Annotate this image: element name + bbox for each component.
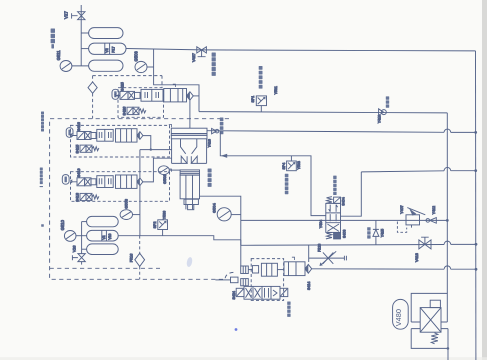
oval tag V480: [393, 299, 409, 329]
junction dot L7/right bus: [475, 268, 478, 271]
label 压力传感器 (vertical): [259, 66, 263, 89]
wire stub B3: [82, 248, 87, 250]
valve element V480: [420, 300, 441, 332]
junction dot L5/right bus: [474, 169, 477, 172]
junction dot L3/right bus: [474, 131, 477, 134]
dashed riser through filter: [93, 76, 162, 119]
scan edge shading bottom: [0, 357, 487, 360]
pressure sensor SP4/Y533: [287, 156, 297, 171]
svg-text:V480: V480: [394, 309, 403, 326]
corner mark row1: [173, 84, 176, 87]
spring bottom: [326, 233, 332, 239]
pilot valve S426 below: [127, 107, 146, 114]
wire stub B1: [82, 221, 87, 223]
valve body S403: [326, 203, 341, 232]
junction dot V480 bottom: [447, 347, 450, 350]
proportional section row3: [97, 176, 113, 188]
wire: main pressure bus from accumulator to right column: [126, 49, 476, 51]
piston rod: [186, 175, 193, 209]
accumulator capsule B1: [87, 216, 119, 226]
pressure sensor SP1/Y531: [256, 96, 266, 112]
solenoid tab left: [236, 288, 244, 296]
wire stub G506: [147, 66, 154, 68]
hop over right vertical: [444, 241, 451, 244]
wire: L7 injection line to right bus: [312, 268, 476, 270]
wire: upper port line into cylinder: [140, 149, 172, 151]
wire: row2 cone to riser A then cylinder: [143, 136, 151, 150]
svg-text:V26: V26: [73, 246, 77, 253]
pilot valve S419: [71, 178, 96, 186]
connector B: [231, 277, 239, 283]
label 单向阀 (vertical): [367, 227, 370, 238]
wire: valve A-port riser to L5: [341, 172, 362, 216]
check valve Y415: [373, 229, 379, 236]
mid body S414: [261, 263, 277, 276]
wire stub G504: [231, 214, 241, 216]
svg-text:S403: S403: [342, 230, 346, 238]
oval tag Y504: [62, 175, 69, 185]
cylinder cap: [171, 128, 207, 135]
proportional section row2: [97, 129, 113, 141]
main cartridge row2: [116, 129, 138, 142]
svg-text:S404: S404: [342, 197, 346, 205]
adjustment arrow: [407, 208, 425, 216]
main cartridge row3: [116, 175, 138, 188]
piston seal glands: [181, 156, 197, 163]
pressure gauge G506: [135, 61, 147, 72]
svg-text:Y412: Y412: [432, 206, 436, 214]
main cartridge S414: [284, 262, 305, 276]
accumulator capsule B3: [87, 244, 119, 255]
dashed drain through F516: [139, 236, 141, 280]
svg-text:Y533: Y533: [297, 161, 301, 169]
wire: group2 riser: [81, 222, 83, 254]
svg-text:Y415: Y415: [380, 229, 384, 237]
cartridge cone S414: [305, 264, 312, 273]
pilot valve S418 below: [80, 193, 99, 200]
label 液控单向阀 (vertical): [220, 118, 224, 135]
svg-text:V10: V10: [108, 233, 112, 239]
wire stub G503: [169, 169, 180, 171]
valve V427 on bus: [197, 47, 207, 57]
wire: vertical through row3 cone down to accumulator2 line: [139, 150, 141, 236]
wire stub G508: [133, 214, 140, 216]
wire: step at valve block: [240, 240, 242, 246]
accumulator capsule 3: [89, 60, 123, 71]
wire: riser under bus to valve rows: [154, 49, 199, 112]
wire: accumulator riser: [80, 5, 82, 66]
check valve Y419: [379, 109, 387, 116]
svg-text:G510: G510: [60, 219, 65, 230]
wire stub capsule2: [81, 48, 88, 50]
wire: L4 rod line, branch from L3 down then right: [220, 132, 325, 216]
label 蓄能器1 (vertical): [51, 29, 55, 49]
svg-text:SP4: SP4: [282, 163, 286, 170]
pilot check valve Y418a: [212, 128, 219, 133]
wire: into connector B: [215, 279, 230, 281]
svg-text:G506: G506: [133, 51, 138, 62]
junction dot riser A: [150, 148, 152, 150]
svg-text:SP2: SP2: [153, 222, 157, 229]
relief valve Y407 body: [406, 215, 420, 225]
filter diamond on dashed line: [88, 82, 97, 93]
svg-text:G508: G508: [124, 198, 129, 209]
svg-text:Y404: Y404: [319, 220, 323, 228]
filter F516: [135, 253, 145, 266]
dashed inner box bottom: [50, 267, 160, 269]
svg-text:S415: S415: [75, 145, 79, 154]
label 左(右)侧分向阀 (vertical): [333, 176, 336, 195]
pressure gauge G508: [120, 210, 132, 220]
throttle valve F123: [320, 251, 337, 266]
wire: branch L1 to L6: [375, 220, 377, 245]
connector C: [241, 279, 249, 286]
solenoid tab right: [280, 288, 288, 296]
scan edge shading right: [482, 0, 487, 360]
label 压力传感器 (vertical): [285, 174, 289, 194]
wire stub capsule3 + gauge stub: [72, 65, 89, 67]
svg-text:G503: G503: [162, 173, 167, 184]
proportional section row1: [141, 89, 163, 101]
label 单向阀 (vertical): [386, 96, 389, 107]
rod foot: [184, 199, 198, 210]
wire: row3 cone to riser B then cylinder: [143, 158, 172, 182]
svg-text:Y536: Y536: [162, 211, 166, 219]
svg-text:G504: G504: [212, 202, 217, 213]
dashed box S414/S424: [251, 259, 283, 301]
main cartridge row1: [164, 89, 187, 102]
wire: L5 to right bus: [361, 171, 475, 172]
hop over R1: [444, 167, 451, 170]
wire: fitting to body: [248, 269, 252, 271]
svg-text:S416: S416: [77, 122, 81, 131]
pilot valve S415 below: [80, 145, 99, 152]
pressure gauge G510: [64, 231, 76, 242]
dashed enclosure 一体化集成块: [50, 119, 229, 280]
valve body S424: [244, 286, 280, 299]
wire: accumulator2 line across: [118, 236, 476, 246]
lower wire frame: [411, 329, 448, 360]
dashed box row2: [71, 125, 170, 157]
pressure gauge G511: [60, 61, 72, 72]
throttle line: [309, 256, 347, 261]
check valve Y412: [426, 218, 436, 224]
wire: L2 system line from riser to right: [199, 112, 447, 113]
svg-text:F516: F516: [129, 254, 133, 263]
svg-text:V2: V2: [105, 48, 109, 52]
oval tag Y505: [66, 128, 73, 138]
svg-text:Y418: Y418: [208, 139, 212, 147]
svg-text:F17: F17: [112, 46, 116, 52]
fitting A: [241, 266, 249, 274]
svg-text:Y407: Y407: [400, 205, 404, 213]
accumulator capsule 2 (V2 F17): [89, 43, 126, 54]
svg-text:S418: S418: [75, 193, 79, 202]
spring top: [326, 197, 332, 204]
svg-text:V2: V2: [102, 235, 106, 239]
wire stub B2: [76, 235, 87, 237]
faint pen smudge near rod: [186, 257, 193, 268]
svg-text:Y419: Y419: [378, 115, 382, 123]
pressure gauge G503: [158, 166, 169, 175]
oval tag Y508: [112, 89, 119, 99]
junction dot right bus: [475, 243, 478, 246]
small connector: [252, 266, 258, 273]
dashed box row3: [71, 172, 170, 202]
cartridge cone row2: [137, 132, 143, 140]
label 二级比例流量阀 (vertical): [41, 112, 44, 132]
dashed box row1: [118, 88, 164, 118]
piston band: [180, 170, 199, 175]
label 一级比例流量阀 (vertical): [40, 168, 44, 227]
svg-text:S419: S419: [77, 168, 81, 177]
wire: mid to cartridge: [277, 269, 284, 271]
wire R3 right bus: [475, 51, 477, 360]
cylinder inner funnel: [181, 139, 197, 154]
accumulator capsule 1: [89, 28, 123, 39]
upper wire frame: [411, 293, 447, 322]
pressure gauge G504: [217, 208, 231, 221]
cartridge cone row3: [137, 178, 143, 186]
svg-text:SP1: SP1: [251, 96, 255, 103]
svg-text:Y531: Y531: [274, 86, 278, 94]
pilot valve S416: [71, 132, 96, 140]
wire: L1 return line: [241, 219, 447, 221]
dashed bracket to valve cluster: [225, 272, 234, 280]
svg-text:G511: G511: [56, 50, 61, 61]
svg-text:V427: V427: [192, 53, 196, 62]
solenoid bottom (filled): [334, 233, 341, 239]
valve V26: [72, 254, 85, 265]
hop over R1: [444, 129, 451, 132]
blue pen dot: [235, 328, 238, 331]
wire R1: [446, 113, 448, 293]
corner mark S414 box: [292, 257, 295, 260]
corner mark row3: [169, 169, 172, 172]
svg-text:S426: S426: [122, 107, 126, 116]
label (锁模) vertical: [287, 302, 290, 317]
wire stub capsule1: [81, 32, 88, 34]
valve V418 on line: [419, 237, 431, 249]
wire: cone to riser: [193, 95, 199, 97]
svg-text:F123: F123: [317, 244, 321, 252]
spring V480: [431, 333, 438, 344]
svg-text:V418: V418: [415, 253, 419, 262]
hop over R1: [444, 266, 451, 269]
corner mark row2: [169, 124, 172, 127]
ram body: [180, 175, 199, 199]
junction dot L1 end: [446, 219, 449, 222]
wire: throttle branch from L6: [308, 245, 310, 262]
dashed pilot line Y407: [397, 222, 411, 233]
accumulator capsule B2 (V2 V10): [87, 230, 119, 241]
cylinder body walls: [172, 139, 207, 164]
svg-text:V27: V27: [64, 11, 69, 19]
label 左侧油缸 (vertical): [208, 169, 212, 187]
cylinder band: [171, 135, 207, 139]
svg-text:S425: S425: [120, 82, 124, 91]
svg-text:S414: S414: [307, 282, 311, 290]
wire: cone bottom down to cylinder head: [189, 100, 191, 128]
pilot valve S425: [115, 91, 140, 99]
wire: rod port riser x241: [200, 196, 241, 266]
valve V27: [72, 12, 85, 20]
arrow on L4: [221, 154, 227, 158]
pressure sensor SP2/Y536: [158, 220, 168, 236]
wire: L3 head line from cylinder cap to right bus: [207, 131, 476, 133]
wire: frame links: [411, 322, 448, 329]
label 流量控制阀 (vertical): [212, 53, 216, 76]
solenoid top: [334, 197, 341, 203]
svg-text:S424: S424: [232, 291, 236, 299]
cartridge cone row1: [187, 92, 194, 100]
